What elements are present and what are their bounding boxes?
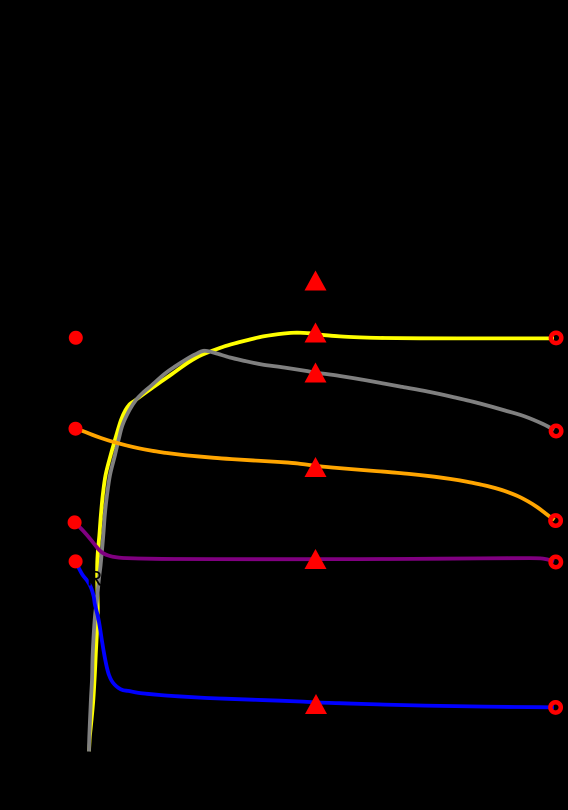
red filled circle marker 4 (left, on blue) <box>69 554 83 568</box>
red open circle marker 3 (right, on orange) <box>550 515 560 525</box>
red filled circle marker 1 (left, top) <box>69 331 83 345</box>
orange curve <box>76 429 555 520</box>
red triangle marker 5 (middle, on purple) <box>305 549 327 569</box>
red triangle marker 6 (middle, on blue) <box>305 694 327 714</box>
red open circle marker 2 (right, on gray) <box>551 426 561 436</box>
yellow curve <box>89 333 554 752</box>
red triangle marker 2 (middle, on yellow) <box>305 323 327 343</box>
red open circle marker 4 (right, on purple) <box>551 557 561 567</box>
blue curve <box>76 562 555 708</box>
red triangle marker 1 (middle, top) <box>305 271 327 291</box>
red open circle marker 1 (right, on yellow) <box>551 333 561 343</box>
purple curve <box>75 523 555 562</box>
red filled circle marker 2 (left, on orange) <box>69 422 83 436</box>
red filled circle marker 3 (left, on purple) <box>68 515 82 529</box>
red triangle marker 4 (middle, on orange) <box>305 457 327 477</box>
red open circle marker 5 (right, on blue) <box>550 702 560 712</box>
svg-text:R: R <box>87 567 102 590</box>
red triangle marker 3 (middle, on gray) <box>305 363 327 383</box>
gray curve <box>89 351 554 752</box>
